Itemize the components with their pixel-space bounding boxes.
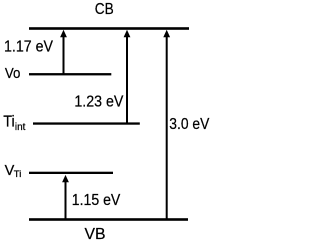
1.15 eV value label	[72, 192, 121, 209]
3.0 eV value label	[169, 116, 210, 133]
arrow VB to CB (3.0 eV band gap)	[163, 30, 170, 219]
svg-text:int: int	[15, 122, 26, 133]
arrow Ti_int to CB (1.23 eV transition)	[124, 30, 131, 123]
valence band level line	[29, 218, 188, 221]
Vo level label	[5, 65, 21, 82]
svg-text:CB: CB	[95, 1, 114, 18]
svg-text:Ti: Ti	[14, 169, 21, 180]
svg-text:VB: VB	[85, 226, 106, 243]
1.23 eV value label	[74, 94, 124, 111]
svg-text:1.17 eV: 1.17 eV	[4, 38, 54, 55]
Ti interstitial defect level line	[33, 122, 140, 124]
V_Ti defect level line	[29, 172, 113, 174]
conduction band label CB	[95, 1, 114, 18]
1.17 eV value label	[4, 38, 54, 55]
svg-text:3.0 eV: 3.0 eV	[169, 116, 210, 133]
svg-text:1.15 eV: 1.15 eV	[72, 192, 121, 209]
Vo defect level line	[29, 73, 111, 75]
conduction band level line	[29, 27, 189, 30]
svg-text:Ti: Ti	[3, 114, 15, 131]
V_Ti level label	[5, 163, 22, 180]
svg-text:1.23 eV: 1.23 eV	[74, 94, 124, 111]
arrow Vo to CB (1.17 eV transition)	[60, 30, 67, 74]
arrow VB to V_Ti (1.15 eV transition)	[62, 175, 69, 219]
Ti_int level label	[3, 114, 25, 133]
valence band label VB	[85, 226, 106, 243]
svg-text:Vo: Vo	[5, 65, 21, 82]
